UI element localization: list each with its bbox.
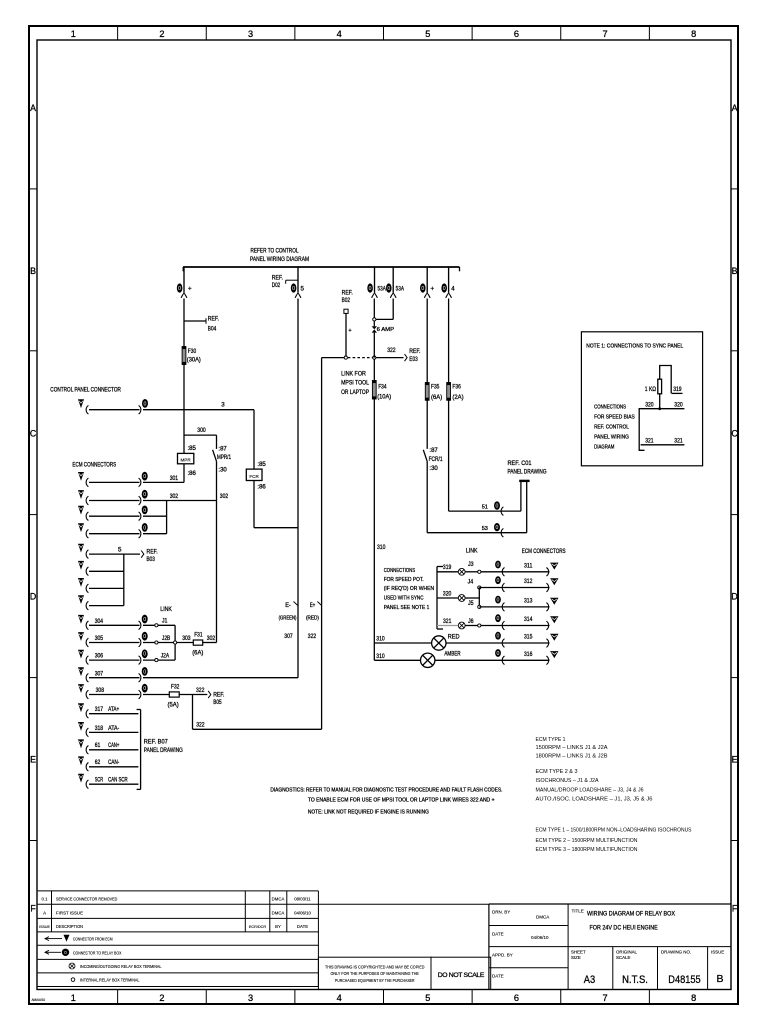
svg-text:PURCHASED EQUIPMENT BY THE PUR: PURCHASED EQUIPMENT BY THE PURCHASER [335, 978, 415, 983]
svg-text:(30A): (30A) [187, 357, 201, 364]
svg-text:REF.: REF. [213, 691, 224, 698]
ref B04 branch [184, 315, 219, 332]
wire 301 (ECM to MPR :86) [78, 472, 184, 487]
svg-text:J6: J6 [468, 618, 474, 625]
svg-text:D: D [731, 592, 737, 602]
svg-text:ECM CONNECTORS: ECM CONNECTORS [522, 548, 566, 555]
svg-text:321: 321 [443, 618, 452, 625]
connector from control panel (wire 3) [78, 399, 254, 414]
svg-text:3: 3 [221, 402, 225, 409]
svg-text:(10A): (10A) [377, 394, 391, 401]
svg-text:ORIGINAL: ORIGINAL [616, 950, 638, 955]
wire 308 (to F32) [78, 684, 169, 699]
wire: 53A terminals junction [373, 299, 394, 322]
svg-text:PANEL SEE NOTE 1: PANEL SEE NOTE 1 [384, 605, 430, 611]
svg-text:MPR: MPR [180, 458, 191, 463]
svg-text::87: :87 [218, 445, 227, 452]
wire 316 to ECM [481, 649, 559, 665]
svg-text:B04: B04 [208, 325, 217, 332]
ref B02 callout with test point [342, 290, 353, 314]
svg-text:B: B [716, 973, 723, 985]
wire: MPSI link vertical (net 322) [321, 358, 323, 730]
svg-text:8: 8 [691, 29, 696, 39]
ECM spare row b (net 302) [78, 523, 167, 538]
svg-text:310: 310 [377, 544, 386, 551]
net 5 tie vertical [123, 554, 125, 606]
svg-text:FCR: FCR [249, 474, 259, 479]
svg-text:(GREEN): (GREEN) [279, 616, 297, 622]
svg-text:0: 0 [497, 598, 500, 604]
svg-text:5: 5 [118, 546, 122, 553]
wire 315 with RED lamp [374, 633, 481, 650]
ECM type legend [536, 737, 692, 853]
wire 62 CAN- [78, 756, 138, 771]
svg-text:CAN SCR: CAN SCR [108, 777, 128, 784]
title block [489, 904, 731, 990]
svg-text:322: 322 [196, 722, 205, 729]
svg-text:D02: D02 [272, 282, 281, 289]
svg-text:F: F [732, 903, 738, 913]
svg-text:LINK: LINK [160, 606, 172, 613]
svg-text:DMCA: DMCA [272, 897, 285, 902]
svg-text:5: 5 [425, 29, 430, 39]
label: link for MPSI tool or laptop [341, 371, 369, 396]
wire 322 drop [193, 695, 322, 730]
svg-text:WIRING DIAGRAM OF RELAY BOX: WIRING DIAGRAM OF RELAY BOX [587, 911, 676, 918]
svg-text:E-: E- [285, 602, 291, 609]
svg-text:311: 311 [524, 562, 533, 569]
svg-text:0: 0 [497, 634, 500, 640]
svg-text:J2A: J2A [161, 652, 170, 659]
svg-text:INCOMING/OUTGOING RELAY BOX T: INCOMING/OUTGOING RELAY BOX TERMINAL [80, 964, 162, 969]
svg-text:08/03/11: 08/03/11 [294, 897, 311, 902]
terminal 5 [291, 267, 305, 298]
svg-text:1 KΩ: 1 KΩ [645, 386, 656, 393]
svg-text:CONTROL PANEL CONNECTOR: CONTROL PANEL CONNECTOR [50, 387, 121, 394]
svg-text:6: 6 [514, 29, 519, 39]
terminal line 321 [641, 437, 685, 445]
copyright box [318, 957, 431, 989]
fuse F36 (2A) [447, 299, 464, 401]
terminal 53A (second) [386, 267, 405, 298]
svg-text:6: 6 [514, 993, 519, 1003]
svg-text:301: 301 [170, 475, 179, 482]
link heading (left) [160, 606, 172, 613]
svg-text:SCALE: SCALE [616, 955, 630, 960]
svg-text:DESCRIPTION: DESCRIPTION [56, 924, 83, 929]
wire 322 link row with removable link [322, 347, 421, 363]
relay coil MPR [178, 435, 197, 482]
terminal line 320 [641, 401, 685, 408]
svg-text:308: 308 [96, 687, 105, 694]
svg-text:0: 0 [369, 286, 372, 292]
svg-text:320: 320 [645, 401, 654, 408]
svg-text:(6A): (6A) [192, 650, 203, 657]
svg-text:ECM TYPE 1: ECM TYPE 1 [536, 737, 566, 743]
svg-text:J4: J4 [468, 579, 474, 586]
svg-text:OR LAPTOP: OR LAPTOP [341, 389, 369, 396]
link J3 [468, 561, 481, 573]
svg-text:321: 321 [674, 437, 683, 444]
wire: net 310 vertical [374, 399, 386, 660]
svg-text:CONNECTIONS: CONNECTIONS [594, 405, 626, 411]
svg-text:319: 319 [673, 386, 682, 393]
svg-text:AUTO./ISOC. LOADSHARE – J1, J3: AUTO./ISOC. LOADSHARE – J1, J3, J5 & J6 [536, 796, 653, 802]
svg-text:F: F [30, 903, 36, 913]
svg-text:(2A): (2A) [452, 394, 463, 401]
svg-text:REF. CONTROL: REF. CONTROL [594, 425, 629, 431]
svg-text:CAN+: CAN+ [108, 742, 119, 749]
svg-text:MPR/1: MPR/1 [217, 454, 231, 461]
svg-text:0: 0 [143, 686, 146, 692]
svg-text:E: E [30, 755, 36, 765]
svg-text::86: :86 [188, 470, 197, 477]
wire 3 down to FCR coil [253, 410, 255, 469]
svg-text:0: 0 [496, 525, 499, 531]
ECM spare row d (net 5) [78, 578, 124, 593]
svg-text:A: A [30, 103, 36, 113]
terminal + (engine supply) [420, 267, 435, 298]
svg-text:0: 0 [143, 525, 146, 531]
svg-text:INTERNAL RELAY BOX TERMINAL: INTERNAL RELAY BOX TERMINAL [80, 978, 140, 983]
wire 317 ATA+ [78, 703, 138, 718]
svg-text:2: 2 [159, 29, 164, 39]
svg-text:303: 303 [182, 635, 191, 642]
svg-text:04/06/10: 04/06/10 [294, 911, 311, 916]
wire 314 to ECM [481, 614, 559, 630]
svg-text:53A: 53A [396, 285, 405, 292]
svg-text:322: 322 [387, 347, 396, 354]
relay contact FCR/1 [423, 400, 443, 532]
svg-text:ISOCHRONUS – J1 & J2A: ISOCHRONUS – J1 & J2A [536, 778, 599, 784]
legend: internal relay box terminal [71, 978, 140, 983]
svg-text:0: 0 [143, 669, 146, 675]
wire 61 CAN+ [78, 739, 138, 754]
svg-text:THIS DRAWING IS COPYRIGHTED AN: THIS DRAWING IS COPYRIGHTED AND MAY BE C… [325, 964, 425, 969]
svg-text:0: 0 [387, 286, 390, 292]
svg-text:J5: J5 [468, 600, 474, 607]
svg-text:F30: F30 [188, 348, 197, 355]
svg-text:D: D [30, 592, 36, 602]
svg-text:APPD. BY: APPD. BY [492, 953, 513, 958]
ref C01 panel drawing callout [508, 460, 547, 481]
wire 312 to ECM [479, 576, 558, 592]
separator line above notes area [318, 903, 489, 905]
legend: incoming/outgoing relay box terminal [69, 963, 162, 969]
svg-text:5: 5 [425, 993, 430, 1003]
wire: control panel supply bus [183, 267, 460, 271]
svg-text:ONLY FOR THE PURPOSES OF MAINT: ONLY FOR THE PURPOSES OF MAINTAINING THE [331, 971, 420, 976]
node E- (GREEN) on net 307 [279, 602, 298, 641]
svg-text:C: C [731, 429, 738, 439]
svg-text:313: 313 [524, 598, 533, 605]
svg-text:+: + [431, 285, 435, 292]
svg-text:ECM TYPE 3 – 1800RPM MULTIFUNC: ECM TYPE 3 – 1800RPM MULTIFUNCTION [536, 847, 638, 853]
svg-text:+: + [188, 285, 192, 292]
wire 304 (link J1) [78, 615, 175, 630]
svg-text:7: 7 [603, 993, 608, 1003]
svg-text:316: 316 [524, 651, 533, 658]
svg-text:A3: A3 [584, 974, 595, 986]
terminal + (to relay box) [177, 267, 192, 298]
svg-text:315: 315 [524, 634, 533, 641]
svg-text:F36: F36 [452, 384, 461, 391]
net 302 tie vertical [166, 501, 168, 534]
wire: terminal 5 net down to 307 [297, 299, 299, 678]
note: refer to control panel wiring diagram [250, 248, 309, 264]
svg-text:N.T.S.: N.T.S. [622, 974, 648, 986]
note: connections for speed pot [384, 568, 434, 611]
svg-text:FCR/1: FCR/1 [429, 456, 443, 463]
svg-text:A: A [43, 911, 46, 916]
svg-text:DIAGNOSTICS: REFER TO MANUAL: DIAGNOSTICS: REFER TO MANUAL FOR DIAGNOS… [270, 788, 502, 794]
wire 318 ATA- [78, 722, 138, 737]
svg-text:J2B: J2B [162, 635, 170, 642]
svg-text:304: 304 [95, 618, 104, 625]
wire from B02 test point [346, 313, 352, 357]
wire 315 to ECM [481, 632, 559, 648]
svg-text:318: 318 [95, 725, 104, 732]
svg-text:F31: F31 [194, 632, 203, 639]
svg-text:319: 319 [443, 564, 452, 571]
svg-text:312: 312 [524, 578, 533, 585]
circuit breaker 6 AMP [372, 321, 395, 358]
bracket 320 to 321 [639, 409, 644, 451]
svg-text:307: 307 [95, 670, 104, 677]
svg-text:300: 300 [197, 427, 206, 434]
heading ECM connectors (right block) [522, 548, 566, 555]
svg-text:0: 0 [443, 286, 446, 292]
terminal 4 [441, 267, 455, 298]
svg-text:ATA+: ATA+ [108, 706, 119, 713]
link J2A point [155, 652, 170, 661]
svg-text::87: :87 [429, 447, 438, 454]
svg-text:+: + [348, 328, 351, 334]
svg-text:NOTE 1: CONNECTIONS TO SYNC P: NOTE 1: CONNECTIONS TO SYNC PANEL [586, 344, 683, 350]
note 1 box: connections to sync panel [581, 332, 702, 466]
wire 316 with AMBER lamp [374, 652, 481, 668]
svg-text:REF.: REF. [342, 290, 353, 297]
link J1 point [155, 618, 168, 627]
svg-text:SERVICE CONNECTOR REMOVED: SERVICE CONNECTOR REMOVED [56, 897, 118, 902]
ECM spare row e (net 5) [78, 595, 124, 610]
heading LINK (right block) [466, 548, 478, 555]
fuse F31 (6A) on wire 303/302 [182, 632, 216, 657]
svg-text:7: 7 [603, 29, 608, 39]
svg-text:REF.: REF. [409, 348, 420, 355]
svg-text:J3: J3 [468, 561, 474, 568]
svg-text:302: 302 [207, 635, 216, 642]
wire 306 (link J2A) [78, 649, 175, 664]
svg-text:F34: F34 [378, 384, 387, 391]
resistor 1 KOhm [645, 379, 662, 394]
svg-text:F35: F35 [431, 384, 440, 391]
svg-text:PANEL WIRING: PANEL WIRING [594, 435, 629, 441]
svg-text:1500RPM – LINKS J1 & J2A: 1500RPM – LINKS J1 & J2A [536, 745, 608, 751]
svg-text:1800RPM – LINKS J1 & J2B: 1800RPM – LINKS J1 & J2B [536, 753, 608, 759]
wire: terminal + down to F30 and MPR [183, 299, 185, 436]
svg-text:0: 0 [143, 652, 146, 658]
svg-text:4: 4 [337, 993, 342, 1003]
wire 313 to ECM [479, 596, 558, 612]
svg-text:310: 310 [376, 653, 385, 660]
svg-text:REF.: REF. [147, 549, 158, 556]
svg-text::30: :30 [218, 467, 227, 474]
svg-text:CAN-: CAN- [108, 759, 119, 766]
svg-text:0: 0 [497, 616, 500, 622]
svg-text:AMBER: AMBER [444, 652, 461, 658]
svg-text:305: 305 [95, 635, 104, 642]
svg-text:1: 1 [71, 993, 76, 1003]
svg-text:ATA-: ATA- [108, 725, 119, 732]
svg-text:ECR/DCR: ECR/DCR [249, 925, 267, 929]
wire 305 (link J2B) [78, 632, 193, 647]
svg-text:PANEL DRAWING: PANEL DRAWING [508, 469, 547, 476]
svg-text:CONNECTOR TO RELAY BOX: CONNECTOR TO RELAY BOX [73, 950, 122, 955]
svg-text:DMCA: DMCA [272, 911, 285, 916]
svg-text:53: 53 [482, 526, 488, 532]
note 1 caption [594, 405, 635, 451]
svg-text:1: 1 [71, 29, 76, 39]
svg-text:DIAGRAM: DIAGRAM [594, 445, 614, 451]
legend: connector from ECM [45, 935, 113, 942]
svg-text:ECM TYPE 2 – 1500RPM MULTIFUNC: ECM TYPE 2 – 1500RPM MULTIFUNCTION [536, 838, 638, 844]
svg-text:LINK FOR: LINK FOR [341, 371, 366, 378]
wire 322 from F32 to ref B05 [179, 687, 224, 706]
svg-text:0: 0 [143, 634, 146, 640]
bracket for wires 319/320/321 [437, 567, 443, 630]
svg-text:0: 0 [143, 617, 146, 623]
svg-text:FOR SPEED POT.: FOR SPEED POT. [384, 577, 424, 583]
svg-text:DRAWING NO.: DRAWING NO. [661, 950, 691, 955]
svg-text:DO NOT SCALE: DO NOT SCALE [438, 972, 485, 979]
svg-text:(IF REQ’D) OR WHEN: (IF REQ’D) OR WHEN [384, 586, 434, 592]
svg-text:LINK: LINK [466, 548, 478, 555]
relay coil FCR [246, 461, 266, 490]
svg-text:314: 314 [524, 616, 533, 623]
legend: connector to relay box [45, 949, 122, 955]
svg-text:REF. B07: REF. B07 [144, 739, 169, 746]
svg-text:FIRST ISSUE: FIRST ISSUE [56, 911, 83, 916]
wire 302 label right [220, 493, 229, 500]
svg-text::30: :30 [429, 465, 438, 472]
svg-text:317: 317 [95, 706, 104, 713]
svg-text:322: 322 [196, 687, 205, 694]
svg-text:CONNECTIONS: CONNECTIONS [384, 568, 415, 574]
diagnostics note [270, 788, 502, 816]
svg-text:0: 0 [497, 578, 500, 584]
svg-text:(RED): (RED) [306, 616, 319, 622]
svg-text:320: 320 [674, 401, 683, 408]
svg-text:0.1: 0.1 [42, 897, 49, 902]
svg-text:DRN. BY: DRN. BY [492, 910, 510, 915]
svg-text:0: 0 [497, 562, 500, 568]
svg-text:C: C [30, 429, 37, 439]
svg-text:DATE: DATE [492, 974, 504, 979]
svg-text:(5A): (5A) [168, 701, 179, 708]
svg-text:ISSUE: ISSUE [711, 950, 724, 955]
svg-text:ECM CONNECTORS: ECM CONNECTORS [72, 462, 116, 469]
svg-text:306: 306 [95, 653, 104, 660]
svg-text:0: 0 [143, 508, 146, 514]
svg-text:0: 0 [143, 474, 146, 480]
svg-text:302: 302 [170, 493, 179, 500]
bracket group ATA/CAN to ref B07 [137, 710, 183, 790]
svg-text:0: 0 [143, 492, 146, 498]
svg-text:321: 321 [645, 437, 654, 444]
svg-text:E+: E+ [310, 602, 316, 609]
svg-text:BY: BY [275, 924, 281, 929]
svg-text:310: 310 [376, 635, 385, 642]
svg-text:REF.: REF. [272, 275, 283, 282]
svg-text:53A: 53A [378, 285, 387, 292]
wire resistor to 319 terminal [660, 366, 683, 394]
fuse F30 (30A) [182, 347, 201, 365]
wire resistor to 320 [658, 394, 661, 410]
svg-text:62: 62 [95, 759, 101, 766]
net 300 branch [184, 427, 217, 435]
svg-text:04/06/10: 04/06/10 [531, 935, 549, 940]
wire 5 to ref B03 [78, 544, 158, 563]
svg-text:REF. C01: REF. C01 [508, 460, 532, 467]
svg-text:B03: B03 [147, 556, 156, 563]
svg-text:8: 8 [691, 993, 696, 1003]
svg-text:DATE: DATE [492, 932, 504, 937]
svg-text:REF.: REF. [208, 315, 219, 322]
do not scale box [431, 957, 491, 989]
svg-text:J1: J1 [162, 618, 168, 625]
svg-text:E: E [732, 755, 738, 765]
svg-text:DMCA: DMCA [536, 915, 549, 920]
svg-text:NOTE: LINK NOT REQUIRED IF ENG: NOTE: LINK NOT REQUIRED IF ENGINE IS RUN… [308, 809, 429, 815]
svg-text:AMA/A/10: AMA/A/10 [32, 998, 46, 1002]
svg-text:322: 322 [308, 633, 317, 640]
svg-text:TITLE: TITLE [572, 909, 584, 914]
svg-text:ECM TYPE 1 – 1500/1800RPM NON–: ECM TYPE 1 – 1500/1800RPM NON–LOADSHARIN… [536, 828, 692, 834]
svg-text:B: B [30, 266, 36, 276]
svg-text:FOR SPEED BIAS: FOR SPEED BIAS [594, 415, 635, 421]
wire SCR CAN SCR [78, 774, 138, 789]
ECM spare row c (net 5) [78, 561, 124, 576]
svg-text:REFER TO CONTROL: REFER TO CONTROL [251, 248, 299, 255]
svg-text:0: 0 [144, 401, 147, 407]
svg-text:0: 0 [178, 286, 181, 292]
svg-text:3: 3 [248, 993, 253, 1003]
svg-text:PANEL DRAWING: PANEL DRAWING [144, 747, 183, 754]
wire 302 (ECM to MPR/1 :30) [78, 490, 217, 505]
fuse F32 (5A) [168, 684, 180, 709]
svg-text:0: 0 [292, 286, 295, 292]
svg-text:307: 307 [284, 633, 293, 640]
svg-text:CONNECTOR FROM ECM: CONNECTOR FROM ECM [73, 937, 113, 942]
fuse F34 (10A) [372, 359, 391, 400]
svg-text:0: 0 [496, 504, 499, 510]
wire 53 [427, 481, 527, 537]
svg-text:4: 4 [451, 285, 455, 292]
link J4 [468, 579, 481, 590]
fuse F35 (6A) [425, 299, 442, 401]
svg-text:0: 0 [497, 651, 500, 657]
svg-text:RED: RED [448, 633, 460, 640]
svg-text:DATE: DATE [297, 924, 308, 929]
ref D02 callout [272, 275, 298, 290]
revision table [38, 891, 319, 987]
wire 311 to ECM [481, 561, 559, 577]
svg-text:E03: E03 [409, 356, 418, 363]
svg-text:ISSUE: ISSUE [39, 925, 50, 929]
svg-text::86: :86 [257, 483, 266, 490]
svg-text:PANEL WIRING DIAGRAM: PANEL WIRING DIAGRAM [250, 256, 309, 263]
